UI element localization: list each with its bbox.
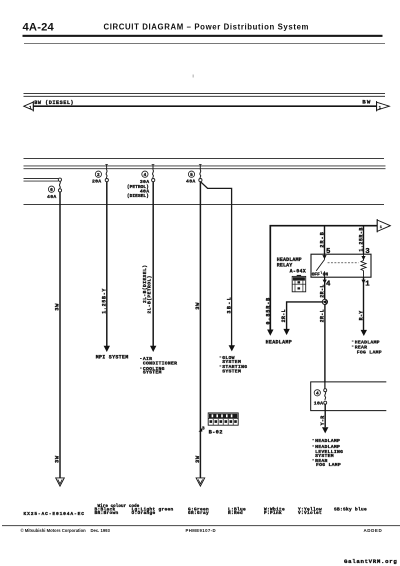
header thick rule [23, 35, 383, 37]
arrow to glow system [229, 345, 235, 351]
arrow to headlamp / rear fog lamp [361, 330, 367, 336]
svg-text:CONDITIONER: CONDITIONER [143, 361, 177, 367]
svg-text:OFF: OFF [312, 272, 320, 277]
svg-text:R-Y: R-Y [358, 310, 364, 320]
svg-text:2L-B(PETROL): 2L-B(PETROL) [146, 275, 152, 313]
svg-text:GR:Gray: GR:Gray [188, 510, 209, 516]
svg-text:40A: 40A [186, 179, 196, 185]
svg-text:HEADLAMP: HEADLAMP [315, 438, 340, 444]
arrow to headlamp (left) [267, 330, 273, 336]
arrow to headlamp (right) [283, 329, 289, 335]
svg-text:R:Red: R:Red [228, 510, 243, 516]
svg-text:3: 3 [202, 426, 205, 432]
svg-text:FOG LAMP: FOG LAMP [316, 462, 341, 468]
svg-text:ADDED: ADDED [364, 528, 383, 533]
svg-text:A-04X: A-04X [290, 269, 307, 275]
text HEADLAMP REAR FOG LAMP [352, 339, 382, 355]
wire: top double line (lower) [24, 95, 386, 97]
arrow to headlamp levelling [322, 427, 328, 433]
svg-text:P:Pink: P:Pink [264, 510, 282, 516]
bus: double line (lower) [24, 168, 386, 170]
arrowhead on pin 5 wire [322, 255, 326, 259]
svg-text:(DIESEL): (DIESEL) [127, 193, 149, 199]
off-page arrow down (middle) [196, 478, 205, 486]
svg-text:KX25-AC-E0104A-EC: KX25-AC-E0104A-EC [24, 511, 85, 517]
wire to relay pin 5 [324, 226, 326, 255]
svg-text:1: 1 [29, 107, 31, 111]
svg-text:4: 4 [326, 281, 331, 289]
svg-text:20A: 20A [92, 179, 102, 185]
svg-text:© Mitsubishi Motors Corporatio: © Mitsubishi Motors Corporation [21, 528, 87, 533]
off-page arrow 1 (right) [377, 101, 390, 111]
svg-text:2R-L: 2R-L [281, 309, 287, 322]
wire from fuse 2 down [106, 182, 108, 346]
fuse F6 [47, 178, 62, 200]
wire from fuse 5 straight down [199, 182, 201, 478]
svg-text:1: 1 [365, 281, 370, 289]
wire: single horizontal line (lower) [24, 204, 385, 206]
junction node [322, 299, 327, 304]
svg-text:5: 5 [190, 172, 193, 178]
wire: single horizontal line [24, 158, 385, 160]
svg-text:BW (DIESEL): BW (DIESEL) [34, 100, 74, 106]
arrow to MPI system [104, 346, 110, 352]
wire pin 4 continues down [324, 305, 326, 383]
text HEADLAMP HEADLAMP LEVELLING SYSTEM REAR FOG LAMP [312, 438, 343, 468]
svg-text:2R-L: 2R-L [320, 284, 326, 297]
fuse F2 [92, 164, 108, 184]
svg-text:3W: 3W [54, 303, 61, 311]
svg-text:1: 1 [380, 226, 382, 230]
wire: stub double line to fuse 6 (lower) [24, 180, 59, 182]
arrowhead below pin 1 [361, 280, 365, 284]
arrow to air conditioner [150, 346, 156, 352]
thick feed wire with corner [270, 226, 377, 330]
svg-text:HEADLAMP: HEADLAMP [266, 339, 292, 345]
svg-text:SB:Sky blue: SB:Sky blue [334, 506, 367, 512]
connector A-04X icon [292, 275, 306, 292]
off-page arrow down (left) [56, 478, 65, 486]
svg-text:CIRCUIT DIAGRAM – Power Distri: CIRCUIT DIAGRAM – Power Distribution Sys… [104, 22, 310, 31]
fuse F4 (10A, in box) [314, 382, 327, 406]
svg-text:O:Orange: O:Orange [132, 510, 156, 516]
off-page arrow 1 (right, feed) [377, 219, 390, 232]
arrowhead below pin 4 [323, 280, 327, 284]
svg-text:0.85R-B: 0.85R-B [266, 297, 272, 325]
wire from fuse 6 down [59, 192, 61, 478]
relay U1 (headlamp relay) box [311, 254, 371, 277]
svg-text:BR:Brown: BR:Brown [95, 510, 119, 516]
svg-text:3W: 3W [54, 455, 61, 463]
fuse F5 [186, 164, 202, 184]
svg-text:4A-24: 4A-24 [23, 21, 55, 33]
svg-text:RELAY: RELAY [277, 263, 293, 269]
svg-text:SYSTEM: SYSTEM [222, 368, 241, 374]
svg-text:2R-B: 2R-B [319, 231, 325, 248]
svg-text:Y-R: Y-R [320, 415, 326, 425]
svg-text:10A: 10A [314, 400, 324, 406]
svg-text:3B-L: 3B-L [226, 296, 232, 314]
svg-text:FOG LAMP: FOG LAMP [357, 349, 382, 355]
stray speck [193, 75, 194, 78]
svg-text:3W: 3W [194, 455, 201, 463]
svg-text:GalantVRM.org: GalantVRM.org [344, 558, 397, 565]
svg-text:3W: 3W [194, 302, 201, 310]
wire: stub double line to fuse 6 (upper) [24, 178, 59, 180]
svg-text:40A: 40A [47, 194, 57, 200]
wire: top double line (upper) [24, 93, 386, 95]
connector B-02 icon [208, 413, 238, 425]
fuse F4 [127, 164, 155, 198]
svg-text:V:Violet: V:Violet [298, 510, 322, 516]
wire branch left to headlamp [287, 302, 323, 329]
svg-text:ON: ON [323, 272, 329, 277]
svg-text:2R-L: 2R-L [320, 309, 326, 322]
wire below fuse box [324, 404, 326, 427]
svg-text:1: 1 [379, 107, 381, 111]
svg-text:B-02: B-02 [209, 429, 223, 435]
footer rule [2, 524, 400, 527]
text GLOW SYSTEM STARTING SYSTEM [220, 355, 248, 375]
svg-text:BW: BW [362, 99, 371, 106]
svg-text:4: 4 [144, 172, 147, 178]
svg-text:1.25R-B: 1.25R-B [358, 227, 364, 252]
svg-text:Dec. 1993: Dec. 1993 [91, 528, 111, 533]
wire branch from fuse 5 to 3B-L [201, 182, 232, 346]
svg-text:4: 4 [316, 391, 319, 397]
bus: double line (upper) [24, 165, 386, 167]
relay dashed link [328, 262, 359, 264]
svg-text:MPI SYSTEM: MPI SYSTEM [96, 354, 129, 360]
svg-text:2: 2 [97, 172, 100, 178]
text AIR CONDITIONER COOLING SYSTEM [140, 356, 177, 376]
svg-text:5: 5 [326, 248, 331, 256]
wire to relay pin 3 [363, 226, 365, 255]
connector B-02 pin 3 marker [199, 426, 205, 432]
wire from relay pin 4 [324, 277, 326, 299]
wire colour code legend [95, 504, 368, 516]
svg-text:6: 6 [50, 187, 53, 193]
svg-text:3: 3 [365, 248, 370, 256]
wire from fuse 4 down [152, 182, 154, 346]
relay coil [361, 254, 366, 277]
svg-text:1.25B-Y: 1.25B-Y [102, 288, 108, 314]
header thin rule [24, 42, 385, 45]
svg-text:SYSTEM: SYSTEM [143, 370, 162, 376]
svg-text:PHME9107-D: PHME9107-D [186, 528, 217, 533]
fuse box outline [311, 382, 387, 411]
wire from relay pin 1 [363, 277, 365, 331]
off-page arrow 1 (left) [24, 101, 34, 112]
wire BW (thick horizontal) [32, 105, 377, 107]
relay switch blade [316, 254, 324, 277]
